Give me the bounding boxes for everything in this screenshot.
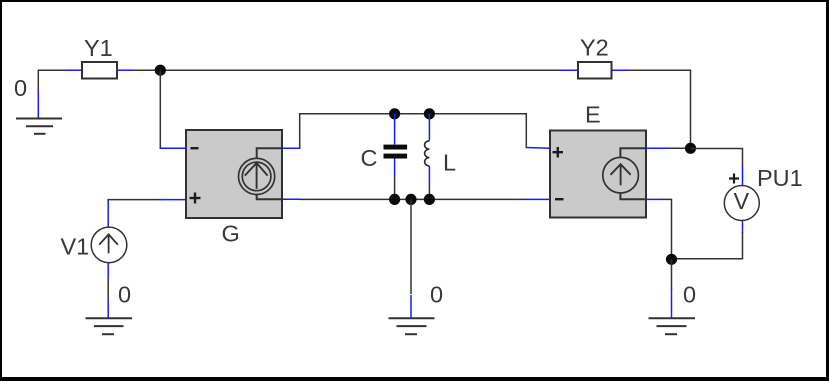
resistor Y2 — [559, 69, 578, 71]
ground (middle) — [389, 318, 435, 334]
svg-text:L: L — [443, 150, 456, 176]
node D junction dot — [666, 254, 677, 265]
node L-bottom junction dot — [424, 194, 435, 205]
svg-text:Y1: Y1 — [84, 35, 113, 61]
resistor Y1 — [82, 62, 117, 79]
svg-text:0: 0 — [683, 282, 696, 308]
svg-text:0: 0 — [430, 282, 443, 308]
inductor L — [425, 114, 430, 200]
node mid-ground junction dot — [405, 194, 416, 205]
wire node A down to G minus pin — [160, 70, 186, 148]
svg-text:PU1: PU1 — [757, 165, 803, 191]
voltmeter PU1 — [724, 186, 759, 221]
capacitor C — [384, 114, 408, 200]
wire Y1 to node A — [117, 69, 560, 71]
wire E top-right to node B — [646, 147, 691, 149]
wire node B to PU1 plus — [691, 149, 743, 186]
controlled source E (VCVS) — [550, 131, 646, 218]
node C-top junction dot — [389, 108, 400, 119]
ground (top-left) — [16, 119, 62, 134]
wire Y2 down to node B — [628, 70, 691, 148]
node L-top junction dot — [424, 108, 435, 119]
svg-text:V: V — [734, 188, 750, 214]
svg-text:E: E — [585, 102, 601, 128]
wire E bottom-right down to node D — [646, 199, 672, 259]
svg-text:C: C — [361, 145, 378, 171]
wire PU1 bottom to node D — [672, 221, 743, 259]
wire V1 to G plus pin — [108, 200, 186, 228]
svg-text:V1: V1 — [61, 234, 90, 260]
wire G top-right to mid rail — [282, 114, 550, 149]
ground (V1) — [86, 318, 133, 334]
svg-text:0: 0 — [14, 75, 27, 101]
node A junction dot — [155, 65, 166, 76]
PU1 plus sign — [729, 174, 739, 184]
svg-text:Y2: Y2 — [580, 35, 609, 61]
wire V1 to ground — [107, 263, 109, 317]
wire node D to ground — [671, 259, 673, 317]
wire mid rail down to ground — [410, 199, 412, 317]
svg-text:0: 0 — [118, 282, 131, 308]
node C-bottom junction dot — [389, 194, 400, 205]
node B junction dot — [685, 143, 696, 154]
svg-text:G: G — [222, 221, 240, 247]
controlled source G (VCCS) — [186, 130, 282, 218]
ground (right) — [649, 318, 696, 334]
voltage source V1 — [91, 227, 127, 263]
wire bottom rail G to E — [282, 198, 550, 200]
wire ground to Y1 — [38, 70, 82, 118]
